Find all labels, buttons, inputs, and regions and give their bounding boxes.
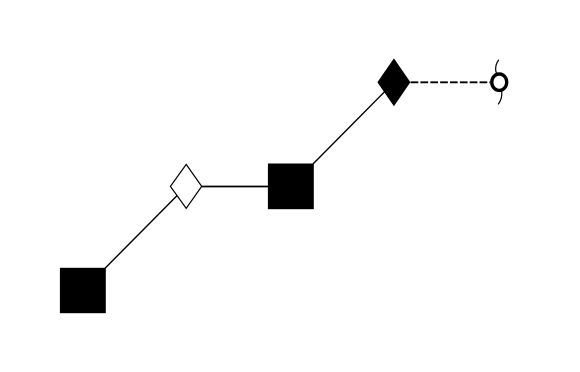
monosaccharide C: filled square (268, 164, 314, 210)
monosaccharide A: filled square (60, 268, 106, 313)
wire: linkage square A to diamond B (83, 186, 186, 290)
monosaccharide B: open diamond (170, 164, 201, 208)
wire: dashed linkage diamond D to reducing end (411, 81, 491, 83)
node: reducing-end wavy line (496, 60, 502, 105)
wire: linkage diamond B to square C (186, 186, 291, 188)
wire: linkage square C to diamond D (291, 82, 394, 186)
monosaccharide D: filled diamond (378, 59, 410, 105)
node: reducing-end circle (492, 74, 507, 90)
